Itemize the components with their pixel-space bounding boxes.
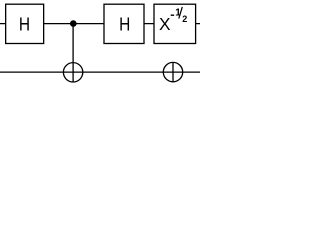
svg-text:X: X bbox=[159, 14, 171, 34]
svg-text:H: H bbox=[119, 14, 130, 34]
svg-text:H: H bbox=[19, 14, 30, 34]
svg-text:2: 2 bbox=[182, 14, 187, 24]
